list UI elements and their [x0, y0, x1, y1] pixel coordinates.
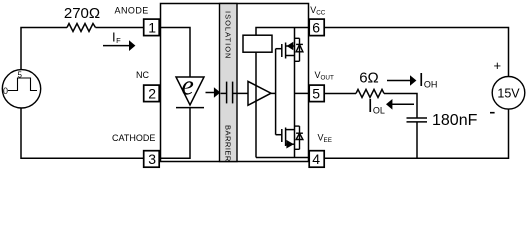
svg-text:ISOLATION: ISOLATION [223, 11, 232, 59]
resistor R1 270ohm zigzag [67, 24, 96, 32]
isolation barrier bar [220, 4, 238, 162]
pin 4 box [309, 151, 324, 168]
pulse voltage source V1 [2, 70, 40, 108]
svg-text:1: 1 [148, 20, 156, 36]
wire: LED to pin 3 [159, 108, 190, 159]
wire: cap to bottom rail [416, 122, 418, 158]
wire: pin 6 to supply [324, 28, 509, 77]
current arrow IF [103, 40, 135, 51]
pin 1 box [144, 19, 160, 35]
wire: source top to resistor [21, 28, 67, 70]
svg-text:e: e [181, 71, 193, 102]
svg-text:CATHODE: CATHODE [112, 133, 155, 143]
wire: supply bottom to VEE rail [324, 109, 509, 158]
wire: resistor to pin 1 [96, 27, 144, 29]
PMOS body diode D2 [295, 38, 303, 61]
svg-text:4: 4 [312, 151, 320, 167]
coupling capacitor across barrier [221, 82, 239, 104]
supply V2 15V circle [492, 77, 525, 110]
buffer amplifier A1 [248, 81, 271, 105]
supply minus sign [490, 112, 495, 114]
capacitor C1 180nF [407, 118, 428, 122]
internal VEE rail [256, 157, 309, 159]
PMOS Q1 source arrow [287, 42, 294, 50]
NMOS Q2 [276, 128, 295, 147]
pin 2 box [144, 85, 160, 102]
wire: buffer output to gate rail [271, 92, 276, 94]
svg-text:270Ω: 270Ω [64, 5, 100, 22]
wire: VCC rail to UVLO top [256, 28, 309, 36]
wire: resistor to cap node [384, 93, 417, 118]
LED D1 emitter triangle [176, 77, 204, 105]
wire: UVLO bottom to internal VEE rail [255, 52, 257, 157]
svg-text:3: 3 [148, 151, 156, 167]
NMOS Q2 source arrow [286, 140, 293, 149]
resistor R2 6ohm zigzag [356, 89, 384, 97]
svg-text:15V: 15V [497, 86, 520, 100]
svg-text:5: 5 [312, 85, 320, 101]
PMOS Q1 [276, 43, 295, 59]
pin 5 box [309, 85, 324, 102]
wire: source bottom to pin 3 [21, 108, 144, 158]
wire: output node to pin 5 [295, 92, 309, 94]
output node rail [294, 28, 296, 158]
svg-text:6: 6 [312, 20, 320, 36]
gate drive rail [275, 49, 277, 135]
UVLO block [243, 35, 272, 52]
svg-text:NC: NC [136, 70, 149, 80]
LED D1 cathode bar [176, 107, 204, 109]
wire: pin1 into chip to LED [159, 28, 190, 78]
light emission arrow [206, 87, 221, 98]
svg-text:2: 2 [148, 85, 156, 101]
wire: barrier to buffer input [238, 92, 248, 94]
NMOS body diode D3 [295, 126, 303, 149]
svg-text:ANODE: ANODE [115, 5, 149, 15]
svg-text:+: + [494, 58, 502, 73]
current arrow IOL [386, 99, 414, 110]
pin 6 box [309, 19, 324, 35]
wire: pin 5 to load resistor [324, 92, 356, 94]
svg-text:180nF: 180nF [432, 112, 478, 129]
pin 3 box [144, 151, 160, 168]
current arrow IOH [387, 75, 416, 86]
svg-text:0: 0 [3, 86, 8, 96]
svg-text:BARRIER: BARRIER [223, 125, 232, 162]
chip outline U1 [161, 4, 309, 162]
svg-text:6Ω: 6Ω [359, 69, 379, 86]
svg-text:5: 5 [18, 71, 23, 80]
